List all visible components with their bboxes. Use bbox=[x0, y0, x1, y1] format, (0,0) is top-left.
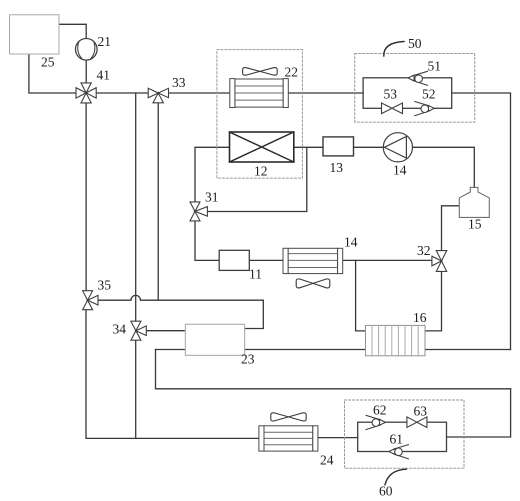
svg-text:16: 16 bbox=[413, 310, 427, 325]
fan of HX24 bbox=[271, 413, 306, 421]
heat exchanger 22 (tube block with end bars) bbox=[230, 79, 289, 108]
wire vertical x158.2 valve33 bottom down to y300 bus bbox=[157, 103, 159, 300]
wire compressor right then down to tank15 top bbox=[413, 147, 475, 187]
compressor 14 bbox=[383, 133, 412, 162]
heat exchanger 12 (crossed box) bbox=[230, 132, 294, 162]
PTC heater block 16 bbox=[366, 325, 426, 355]
svg-text:60: 60 bbox=[379, 484, 393, 499]
wire HX24 left to bottom-left corner (tee at x=135.7) bbox=[86, 310, 259, 439]
wire valve41 right to valve33 left (tee at x=135.7) bbox=[97, 92, 148, 94]
leader arc for 60 bbox=[385, 469, 406, 485]
wire refrigerant line 23-to-16 long horizontal (behind blocks) bbox=[156, 349, 511, 351]
wire long-line left end down and right along y=389 bbox=[156, 350, 511, 389]
wire pump 21 bottom to valve 41 top bbox=[85, 60, 87, 83]
wire box13 right to compressor left bbox=[353, 146, 384, 148]
leader arc for 50 bbox=[384, 42, 404, 57]
svg-text:35: 35 bbox=[98, 278, 112, 293]
3-way valve 32 bbox=[432, 251, 447, 272]
heat exchanger 24 (tube block) bbox=[259, 426, 318, 451]
wire vertical x135.7 from top bus down to valve34 top bbox=[135, 93, 137, 321]
inner rect of module 60 bbox=[358, 422, 447, 451]
svg-text:11: 11 bbox=[249, 267, 262, 282]
check valve 51 bbox=[408, 71, 428, 85]
svg-text:31: 31 bbox=[205, 190, 219, 205]
svg-text:33: 33 bbox=[172, 75, 186, 90]
svg-text:51: 51 bbox=[428, 59, 442, 74]
wire valve32 bottom down then left to block16 right bbox=[425, 272, 442, 331]
wire HX22 right to rect50 left bbox=[288, 92, 363, 94]
wire valve31 bottom down and right to box11 left bbox=[195, 221, 219, 260]
fan of HX14 middle bbox=[296, 279, 330, 288]
3-way valve 34 bbox=[131, 321, 146, 340]
heat exchanger 14 middle (tube block) bbox=[283, 248, 343, 273]
svg-text:25: 25 bbox=[41, 55, 55, 70]
svg-text:13: 13 bbox=[330, 160, 344, 175]
svg-text:14: 14 bbox=[393, 163, 407, 178]
expansion valve 63 bbox=[407, 417, 427, 428]
battery cooler block 23 bbox=[185, 324, 244, 355]
3-way valve 33 bbox=[148, 88, 168, 103]
wire HX14mid right to valve32 left (tee at x=355.6) bbox=[343, 259, 432, 261]
inner rect of module 50 bbox=[363, 78, 452, 109]
check valve 62 bbox=[366, 415, 386, 429]
svg-text:12: 12 bbox=[254, 164, 268, 179]
wire HX12 right to box13 left (tee at x=306.8) bbox=[294, 146, 323, 148]
accumulator tank 15 bbox=[459, 187, 489, 217]
fan of HX22 bbox=[243, 68, 278, 76]
dashed module box 60 bbox=[345, 400, 465, 468]
svg-text:34: 34 bbox=[113, 322, 127, 337]
wire valve35 right with hop over x135.7 then to corner down into block23 right bbox=[98, 295, 263, 328]
wire rect50 right to right-edge corner down to long line bbox=[452, 93, 511, 350]
svg-text:15: 15 bbox=[468, 217, 482, 232]
4-way valve 41 bbox=[76, 83, 96, 103]
wire valve34 right to block23 left bbox=[146, 330, 185, 332]
svg-text:52: 52 bbox=[422, 87, 436, 102]
wire vertical x135.7 valve34 bottom to bottom line bbox=[135, 340, 137, 438]
svg-text:14: 14 bbox=[344, 235, 358, 250]
wire tank25 bottom to 4way valve 41 bbox=[29, 54, 76, 93]
svg-text:53: 53 bbox=[384, 87, 398, 102]
wire vertical x86 valve41 bottom to valve35 top bbox=[85, 103, 87, 291]
box 11 bbox=[219, 250, 249, 270]
receiver box 13 bbox=[323, 137, 354, 156]
svg-text:50: 50 bbox=[408, 36, 422, 51]
wire valve32 top up then right to tank15 left bbox=[442, 206, 460, 251]
wire corner into HX12 left and down to valve31 top bbox=[195, 147, 230, 202]
svg-text:63: 63 bbox=[414, 404, 428, 419]
dashed module box 50 bbox=[355, 54, 475, 123]
expansion valve 53 bbox=[382, 103, 403, 114]
reservoir tank 25 bbox=[10, 15, 60, 54]
wire box11 right to HX14mid left bbox=[249, 259, 283, 261]
dashed module box around 22 and 12 bbox=[217, 50, 303, 179]
svg-text:41: 41 bbox=[97, 68, 111, 83]
3-way valve 31 bbox=[190, 202, 207, 221]
svg-text:61: 61 bbox=[390, 432, 404, 447]
wire y389 right end down to 60-module right side bbox=[447, 389, 511, 437]
svg-text:22: 22 bbox=[285, 65, 299, 80]
wire tee down from y147 and left to valve31 right bbox=[208, 147, 307, 211]
wire tee down from y260 to block16 left bbox=[356, 260, 366, 331]
svg-text:32: 32 bbox=[417, 243, 431, 258]
check valve 61 bbox=[389, 445, 409, 459]
wire rect60 left to HX24 right bbox=[318, 437, 358, 439]
pump 21 bbox=[76, 39, 98, 61]
3-way valve 35 bbox=[83, 291, 98, 310]
check valve 52 bbox=[415, 102, 435, 116]
svg-text:24: 24 bbox=[320, 453, 334, 468]
svg-text:62: 62 bbox=[373, 403, 387, 418]
wire valve33 right to HX22 left bbox=[169, 92, 230, 94]
wire tank25 right to pump 21 top bbox=[59, 24, 86, 38]
svg-text:23: 23 bbox=[241, 352, 255, 367]
svg-text:21: 21 bbox=[98, 34, 112, 49]
